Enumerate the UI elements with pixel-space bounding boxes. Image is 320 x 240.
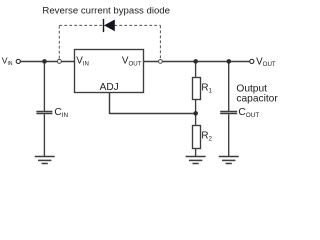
svg-text:Reverse current bypass diode: Reverse current bypass diode — [42, 5, 170, 16]
wire: dashed bypass left vertical — [58, 25, 60, 58]
terminal: VIN input (open circle) — [16, 59, 20, 63]
ground: CIN ground — [35, 157, 55, 164]
wire: dashed bypass right vertical — [159, 25, 161, 58]
terminal: VOUT output (open circle) — [250, 59, 254, 63]
wire: COUT branch upper — [228, 62, 230, 111]
wire: COUT branch lower — [228, 114, 230, 156]
resistor R1 — [193, 78, 201, 100]
ground: COUT ground — [219, 157, 239, 164]
wire: input wire VIN terminal to regulator — [21, 61, 74, 63]
svg-text:ADJ: ADJ — [100, 82, 119, 93]
wire: ADJ feedback wire — [110, 93, 196, 114]
regulator U1 (LDO box) — [75, 50, 144, 93]
node: output junction to COUT — [227, 59, 232, 64]
wire: R1 to R2 segment — [195, 100, 197, 126]
diode D1 (reverse current bypass) — [103, 19, 115, 32]
wire: R2 to ground segment — [195, 149, 197, 157]
ground: R2 ground — [186, 157, 206, 164]
wire: CIN branch lower — [43, 114, 45, 156]
node: bypass tap on output (open) — [159, 60, 163, 64]
node: bypass tap on input (open) — [57, 59, 61, 63]
wire: output wire regulator to VOUT terminal — [144, 61, 250, 63]
node: input junction to CIN — [42, 59, 47, 64]
resistor R2 — [193, 126, 201, 149]
wire: R1 branch upper — [195, 62, 197, 78]
node: output junction to R1 — [193, 59, 198, 64]
capacitor CIN — [36, 112, 52, 114]
wire: dashed bypass top horizontal — [59, 24, 160, 26]
capacitor COUT — [220, 112, 237, 114]
wire: CIN branch upper — [43, 62, 45, 111]
svg-text:capacitor: capacitor — [236, 94, 278, 105]
node: ADJ / R1-R2 junction — [193, 111, 198, 116]
